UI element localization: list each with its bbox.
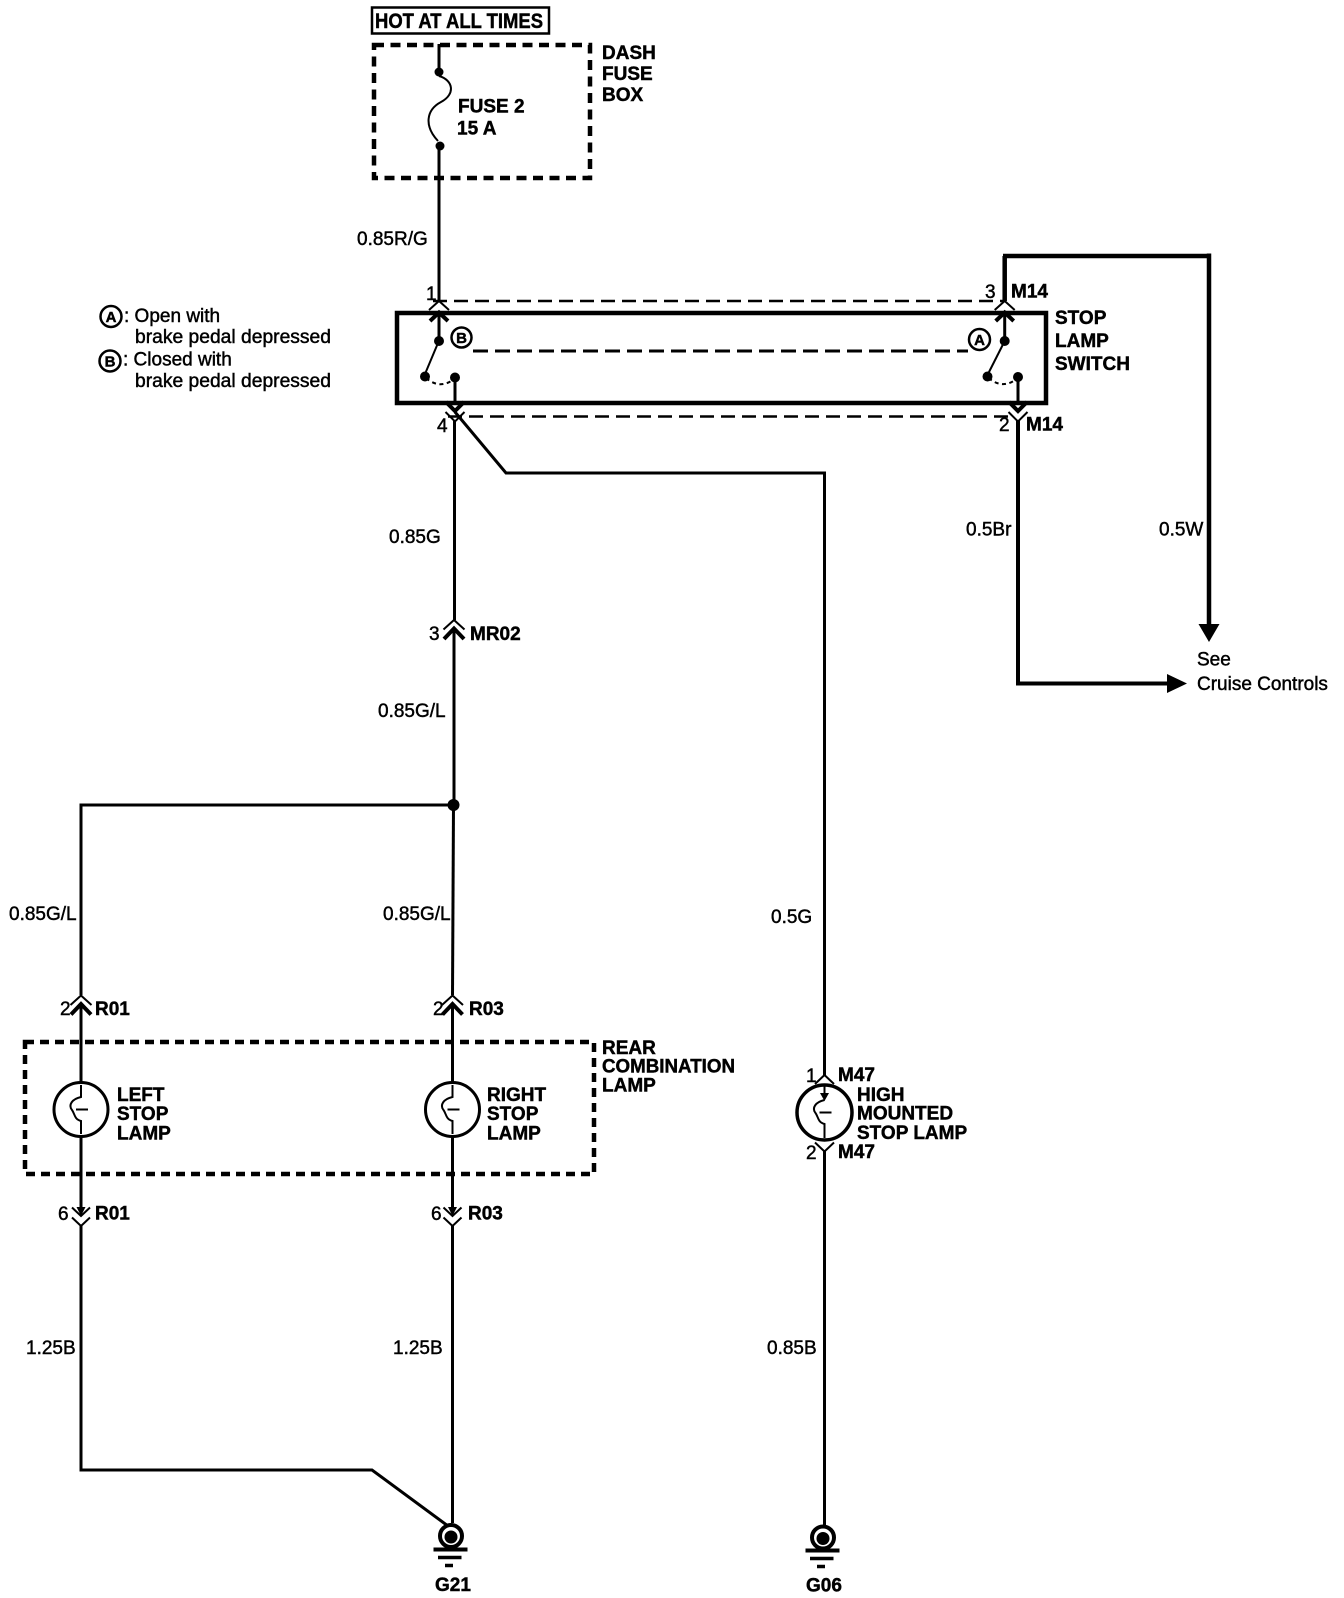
svg-text:2: 2 xyxy=(999,415,1010,436)
svg-text:0.85R/G: 0.85R/G xyxy=(357,229,428,250)
svg-text:0.5W: 0.5W xyxy=(1159,520,1203,541)
svg-text:brake pedal depressed: brake pedal depressed xyxy=(135,371,331,392)
label RIGHT STOP LAMP xyxy=(487,1085,547,1145)
svg-text:3: 3 xyxy=(985,282,996,303)
svg-text:0.5G: 0.5G xyxy=(771,907,812,928)
stop lamp switch body xyxy=(397,313,1046,403)
wire 1.25B right stop lamp to ground G21 xyxy=(451,1225,454,1523)
wire 0.5G branch from pin 4 over to high mounted stop lamp xyxy=(455,412,825,1075)
svg-text:RIGHT: RIGHT xyxy=(487,1085,547,1106)
contact dot A top xyxy=(1000,336,1010,346)
high mounted stop lamp bulb xyxy=(797,1085,852,1140)
svg-text:LAMP: LAMP xyxy=(602,1076,656,1097)
wire branch to left stop lamp xyxy=(81,805,454,995)
circled label A xyxy=(969,329,990,350)
right stop lamp bulb L2 xyxy=(426,1083,480,1137)
svg-text:SWITCH: SWITCH xyxy=(1055,354,1130,375)
svg-text:LAMP: LAMP xyxy=(117,1124,171,1145)
svg-text:HOT AT ALL TIMES: HOT AT ALL TIMES xyxy=(375,10,543,33)
legend circled B : Closed with brake pedal depressed xyxy=(100,350,332,393)
svg-text:LAMP: LAMP xyxy=(487,1124,541,1145)
wire 0.85B high mounted stop lamp to ground G06 xyxy=(823,1151,826,1526)
svg-text:M14: M14 xyxy=(1026,415,1063,436)
switch blade A (open with brake pedal depressed) xyxy=(988,343,1004,374)
svg-text:See: See xyxy=(1197,650,1231,671)
wire 1.25B left stop lamp to ground G21 xyxy=(81,1225,448,1526)
dash fuse box (dashed boundary) xyxy=(374,45,590,178)
svg-text:Cruise Controls: Cruise Controls xyxy=(1197,674,1328,695)
svg-text:G06: G06 xyxy=(806,1576,842,1597)
pin 3 connector chevrons xyxy=(995,301,1015,321)
dashed actuator arc B xyxy=(426,378,454,384)
svg-text:1.25B: 1.25B xyxy=(26,1338,76,1359)
svg-text:DASH: DASH xyxy=(602,43,656,64)
value label FUSE 2 / 15 A xyxy=(457,97,525,140)
pin 4 connector (arrow + chevron) xyxy=(446,402,465,422)
connector M14 dashed line (top) xyxy=(433,300,1004,303)
svg-text:R01: R01 xyxy=(95,999,130,1020)
svg-text:STOP: STOP xyxy=(117,1104,169,1125)
svg-text:0.85G/L: 0.85G/L xyxy=(378,701,446,722)
pin 2 connector (arrow + chevron) xyxy=(1009,402,1028,422)
wire 0.5Br from switch pin 2 down then right to cruise controls xyxy=(1016,420,1168,684)
svg-text:1.25B: 1.25B xyxy=(393,1338,443,1359)
contact dot B lower-right xyxy=(450,373,460,383)
svg-text:6: 6 xyxy=(58,1204,69,1225)
connector M14 dashed line (bottom) xyxy=(448,415,1015,418)
svg-text:0.85B: 0.85B xyxy=(767,1338,817,1359)
svg-text:FUSE: FUSE xyxy=(602,64,653,85)
junction dot fuse top xyxy=(435,68,444,77)
svg-text:M14: M14 xyxy=(1011,282,1048,303)
svg-text:: Open with: : Open with xyxy=(124,306,220,327)
ground G21 xyxy=(434,1525,472,1596)
svg-text:6: 6 xyxy=(431,1204,442,1225)
arrowhead right (to See Cruise Controls) xyxy=(1167,674,1187,693)
arrowhead down (to See Cruise Controls) xyxy=(1199,624,1220,642)
svg-text:2: 2 xyxy=(806,1143,817,1164)
svg-text:M47: M47 xyxy=(838,1065,875,1086)
svg-text:: Closed with: : Closed with xyxy=(123,350,232,371)
contact dot B top xyxy=(434,336,444,346)
wire R03 to right stop lamp xyxy=(451,1005,454,1084)
svg-text:M47: M47 xyxy=(838,1142,875,1163)
svg-text:COMBINATION: COMBINATION xyxy=(602,1057,735,1078)
connector R01 pin 2 chevrons xyxy=(71,996,92,1015)
label STOP LAMP SWITCH xyxy=(1055,308,1130,375)
svg-text:0.85G/L: 0.85G/L xyxy=(383,904,451,925)
wire 0.5W from switch pin 3 feed, across top and down to cruise controls xyxy=(1003,254,1209,625)
ground G06 xyxy=(806,1527,842,1597)
connector R03 pin 6 (arrow + chevrons) xyxy=(444,1207,462,1226)
wire 0.85R/G from fuse to stop lamp switch pin 1 xyxy=(438,146,441,301)
wire left lamp to R01 pin 6 xyxy=(80,1137,83,1210)
pin 1 connector chevrons xyxy=(429,301,449,321)
legend circled A : Open with brake pedal depressed xyxy=(101,306,332,348)
svg-text:MOUNTED: MOUNTED xyxy=(857,1104,953,1125)
svg-text:2: 2 xyxy=(60,999,71,1020)
svg-text:0.85G: 0.85G xyxy=(389,527,441,548)
contact dot A lower-left xyxy=(983,372,993,382)
junction node (splice) xyxy=(448,799,460,811)
svg-text:BOX: BOX xyxy=(602,85,644,106)
note See Cruise Controls xyxy=(1197,650,1328,696)
label HIGH MOUNTED STOP LAMP xyxy=(857,1085,967,1144)
svg-text:R03: R03 xyxy=(469,999,504,1020)
svg-text:LAMP: LAMP xyxy=(1055,331,1109,352)
svg-text:0.5Br: 0.5Br xyxy=(966,520,1012,541)
svg-text:0.85G/L: 0.85G/L xyxy=(9,904,77,925)
svg-text:A: A xyxy=(106,309,117,326)
fuse F2 (FUSE 2 15 A) xyxy=(429,76,451,141)
svg-text:1: 1 xyxy=(426,284,437,305)
label LEFT STOP LAMP xyxy=(117,1085,171,1145)
wire right lamp to R03 pin 6 xyxy=(451,1137,454,1210)
wire contact A to pin 2 xyxy=(1017,377,1020,403)
svg-text:FUSE 2: FUSE 2 xyxy=(458,97,525,118)
svg-text:brake pedal depressed: brake pedal depressed xyxy=(135,327,331,348)
wire R01 to left stop lamp xyxy=(80,1005,83,1084)
wire pin1 to contact B xyxy=(438,313,441,337)
power tag HOT AT ALL TIMES xyxy=(372,8,549,34)
wire from hot feed into fuse xyxy=(438,44,441,70)
wire contact B to pin 4 xyxy=(454,378,457,404)
svg-text:15 A: 15 A xyxy=(457,119,497,140)
contact dot A lower-right xyxy=(1013,372,1023,382)
switch blade B (closed with brake pedal depressed) xyxy=(425,343,438,374)
contact dot B lower-left xyxy=(420,372,430,382)
svg-text:STOP LAMP: STOP LAMP xyxy=(857,1123,967,1144)
wire continues to right stop lamp xyxy=(453,805,454,995)
svg-text:R03: R03 xyxy=(468,1204,503,1225)
svg-text:G21: G21 xyxy=(435,1575,471,1596)
wire 0.85G from switch pin 4 to connector MR02 xyxy=(453,420,456,620)
svg-text:STOP: STOP xyxy=(487,1104,539,1125)
wire 0.85G/L from MR02 to junction xyxy=(453,629,456,805)
label DASH FUSE BOX xyxy=(602,43,656,106)
svg-text:LEFT: LEFT xyxy=(117,1085,165,1106)
circled label B xyxy=(452,328,472,348)
dashed actuator arc A xyxy=(989,378,1018,384)
connector M47 pin 2 chevron xyxy=(815,1143,834,1152)
connector R03 pin 2 chevrons xyxy=(442,996,463,1015)
connector MR02 chevrons xyxy=(444,620,465,639)
svg-text:B: B xyxy=(105,354,116,371)
switch mechanical link dashed line (middle) xyxy=(473,350,968,353)
svg-text:A: A xyxy=(974,332,985,349)
svg-text:4: 4 xyxy=(437,416,448,437)
svg-text:3: 3 xyxy=(429,624,440,645)
svg-text:2: 2 xyxy=(433,999,444,1020)
label REAR COMBINATION LAMP xyxy=(602,1038,735,1097)
svg-text:MR02: MR02 xyxy=(470,624,521,645)
left stop lamp bulb L1 xyxy=(54,1083,108,1137)
svg-text:B: B xyxy=(456,330,467,347)
connector M47 pin 1 chevron xyxy=(815,1075,834,1084)
wire pin3 to contact A xyxy=(1003,313,1006,337)
rear combination lamp (dashed boundary) xyxy=(25,1042,594,1174)
svg-text:STOP: STOP xyxy=(1055,308,1107,329)
junction dot fuse bottom xyxy=(436,142,445,151)
connector R01 pin 6 (arrow + chevrons) xyxy=(72,1207,90,1226)
svg-text:R01: R01 xyxy=(95,1204,130,1225)
